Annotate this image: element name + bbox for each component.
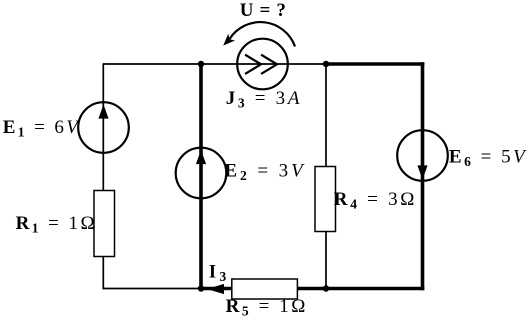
svg-text:I3: I3 [209, 262, 227, 285]
junction node top-middle [198, 61, 204, 67]
wire bottom-left [103, 288, 202, 290]
svg-text:U=?: U=? [240, 0, 286, 21]
voltage source E6 [397, 130, 448, 181]
voltage source E2 [176, 148, 227, 199]
svg-text:R1 = 1Ω: R1 = 1Ω [16, 213, 95, 236]
resistor R4 [315, 167, 336, 232]
svg-text:J3 = 3A: J3 = 3A [226, 88, 300, 111]
svg-text:R5 = 1Ω: R5 = 1Ω [226, 296, 306, 319]
junction node bottom-middle [198, 285, 204, 291]
wire R4 branch vertical [325, 64, 327, 289]
wire left vertical [102, 63, 104, 289]
wire middle vertical thick [199, 62, 203, 290]
svg-text:R4 = 3Ω: R4 = 3Ω [334, 189, 415, 212]
junction node bottom-R4 [323, 285, 329, 291]
wire top-right thick [324, 62, 424, 66]
wire top-left (node A to node B) [103, 63, 201, 65]
svg-text:E6 = 5V: E6 = 5V [449, 147, 527, 170]
wire top-middle through J3 [201, 63, 326, 65]
current arrow I3 [207, 284, 224, 294]
resistor R5 [232, 279, 298, 299]
svg-text:E1 = 6V: E1 = 6V [3, 117, 81, 140]
resistor R1 [94, 191, 115, 257]
wire right vertical thick [421, 62, 425, 290]
voltage arc U [223, 22, 295, 46]
wire bottom-right thick [199, 287, 424, 291]
voltage source E1 [78, 102, 129, 153]
svg-text:E2 = 3V: E2 = 3V [224, 161, 305, 184]
current source J3 [237, 39, 288, 90]
junction node top-R4 [323, 61, 329, 67]
